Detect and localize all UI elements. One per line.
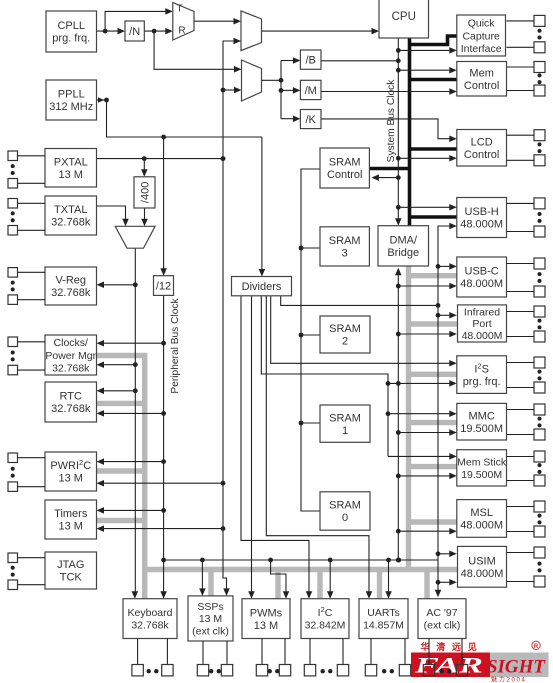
svg-text:312 MHz: 312 MHz: [49, 101, 93, 113]
svg-text:R: R: [534, 644, 539, 650]
svg-text:48.000M: 48.000M: [460, 520, 503, 532]
svg-text:14.857M: 14.857M: [363, 620, 404, 632]
svg-text:48.000M: 48.000M: [460, 219, 503, 231]
svg-text:Mem Stick: Mem Stick: [457, 456, 507, 468]
svg-text:Control: Control: [464, 149, 499, 161]
svg-text:SIGHT: SIGHT: [487, 657, 546, 678]
svg-text:Power Mgr: Power Mgr: [45, 350, 96, 362]
svg-text:USB-H: USB-H: [465, 206, 499, 218]
svg-text:TXTAL: TXTAL: [54, 204, 87, 216]
svg-text:48.000M: 48.000M: [461, 568, 504, 580]
svg-text:13 M: 13 M: [59, 473, 83, 485]
svg-text:Capture: Capture: [462, 30, 500, 42]
svg-text:TCK: TCK: [60, 572, 83, 584]
svg-text:华: 华: [420, 641, 429, 652]
svg-text:/12: /12: [156, 281, 171, 293]
svg-text:CPLL: CPLL: [57, 20, 85, 32]
svg-text:LCD: LCD: [471, 136, 493, 148]
svg-text:0: 0: [342, 512, 348, 524]
svg-text:MSL: MSL: [470, 507, 493, 519]
svg-text:(ext clk): (ext clk): [424, 620, 461, 632]
svg-text:RTC: RTC: [60, 391, 82, 403]
svg-text:SRAM: SRAM: [329, 235, 361, 247]
svg-text:SRAM: SRAM: [329, 412, 361, 424]
svg-text:prg. frq.: prg. frq.: [463, 376, 501, 388]
svg-text:prg. frq.: prg. frq.: [52, 33, 90, 45]
svg-text:USB-C: USB-C: [465, 266, 499, 278]
svg-text:32.842M: 32.842M: [305, 620, 346, 632]
svg-text:32.768k: 32.768k: [51, 403, 91, 415]
svg-text:Mem: Mem: [469, 67, 493, 79]
svg-text:V-Reg: V-Reg: [55, 275, 86, 287]
svg-text:/400: /400: [140, 182, 152, 203]
svg-text:SRAM: SRAM: [329, 500, 361, 512]
svg-text:1: 1: [342, 425, 348, 437]
svg-text:AC '97: AC '97: [426, 607, 457, 619]
svg-text:MMC: MMC: [469, 410, 495, 422]
svg-text:Port: Port: [472, 318, 491, 330]
svg-text:PWMs: PWMs: [250, 607, 283, 619]
svg-text:UARTs: UARTs: [367, 607, 399, 619]
svg-text:2: 2: [342, 336, 348, 348]
svg-text:PWRI2C: PWRI2C: [50, 458, 91, 473]
svg-text:48.000M: 48.000M: [460, 278, 503, 290]
svg-text:PPLL: PPLL: [58, 89, 85, 101]
svg-text:Quick: Quick: [468, 18, 496, 30]
svg-text:(ext clk): (ext clk): [192, 625, 229, 637]
svg-text:19.500M: 19.500M: [460, 423, 503, 435]
svg-text:远: 远: [452, 642, 462, 652]
svg-text:SRAM: SRAM: [329, 157, 361, 169]
svg-text:Timers: Timers: [54, 508, 88, 520]
svg-text:SRAM: SRAM: [329, 323, 361, 335]
svg-text:32.768k: 32.768k: [51, 287, 91, 299]
svg-text:PXTAL: PXTAL: [54, 156, 88, 168]
svg-text:清: 清: [436, 641, 445, 652]
svg-text:USIM: USIM: [468, 556, 496, 568]
svg-text:JTAG: JTAG: [57, 559, 84, 571]
svg-text:System Bus Clock: System Bus Clock: [386, 79, 397, 163]
svg-text:CPU: CPU: [392, 11, 416, 23]
svg-text:I2C: I2C: [318, 605, 333, 620]
svg-text:13 M: 13 M: [199, 613, 222, 625]
svg-text:48.000M: 48.000M: [462, 330, 503, 342]
svg-text:Peripheral Bus Clock: Peripheral Bus Clock: [170, 298, 181, 394]
svg-text:见: 见: [468, 642, 477, 652]
svg-text:13 M: 13 M: [59, 521, 83, 533]
svg-text:T: T: [176, 4, 182, 15]
svg-text:DMA/: DMA/: [390, 235, 418, 247]
svg-text:R: R: [178, 26, 185, 37]
svg-text:Infrared: Infrared: [464, 306, 500, 318]
svg-text:Interface: Interface: [461, 43, 502, 55]
svg-text:19.500M: 19.500M: [461, 469, 502, 481]
svg-text:32.768k: 32.768k: [51, 217, 91, 229]
svg-text:/K: /K: [305, 114, 316, 126]
svg-text:32.768k: 32.768k: [131, 620, 169, 632]
svg-text:Control: Control: [464, 80, 499, 92]
svg-text:Clocks/: Clocks/: [54, 337, 89, 349]
svg-text:Keyboard: Keyboard: [128, 607, 173, 619]
svg-text:/M: /M: [305, 85, 317, 97]
svg-text:/N: /N: [129, 26, 140, 38]
svg-text:I2S: I2S: [474, 361, 489, 376]
svg-text:Dividers: Dividers: [242, 281, 282, 293]
svg-text:魅 力 2 0 0 4: 魅 力 2 0 0 4: [491, 676, 525, 683]
svg-text:/B: /B: [305, 55, 315, 67]
svg-text:13 M: 13 M: [59, 169, 83, 181]
svg-text:SSPs: SSPs: [197, 601, 223, 613]
svg-text:Bridge: Bridge: [387, 247, 419, 259]
svg-text:13 M: 13 M: [254, 620, 278, 632]
svg-text:32.768k: 32.768k: [52, 362, 90, 374]
svg-text:Control: Control: [327, 169, 362, 181]
svg-text:3: 3: [342, 248, 348, 260]
